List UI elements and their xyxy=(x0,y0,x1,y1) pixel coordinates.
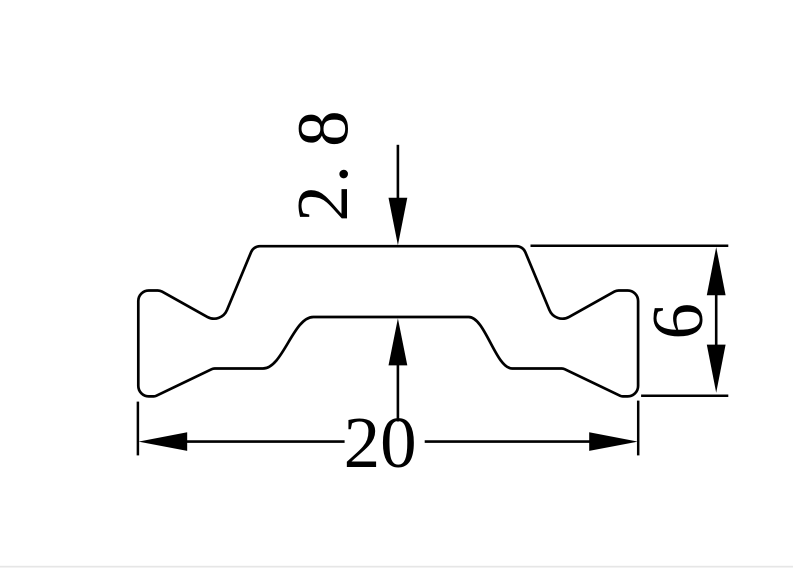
dimension 2.8 upper leader line xyxy=(397,145,400,200)
dimension 20 right extension line xyxy=(637,401,640,456)
dimension 6 upper arrowhead (up) xyxy=(707,247,726,295)
svg-text:20: 20 xyxy=(344,402,417,483)
dimension 20 line left segment xyxy=(186,440,345,443)
dimension 6 line xyxy=(715,293,718,347)
page separator line xyxy=(0,566,793,568)
dimension 20 left arrowhead xyxy=(139,432,188,451)
dimension 20 right arrowhead xyxy=(589,432,638,451)
dimension 2.8 lower arrowhead (up) xyxy=(389,318,408,365)
svg-text:2.8: 2.8 xyxy=(282,108,363,221)
dimension 20 left extension line xyxy=(137,402,140,456)
svg-text:6: 6 xyxy=(637,303,718,340)
dimension 2.8 lower leader line xyxy=(397,364,400,422)
dimension 20 line right segment xyxy=(425,440,591,443)
profile outline xyxy=(138,246,638,396)
dimension 6 bottom extension line xyxy=(641,394,728,397)
dimension 2.8 upper arrowhead (down) xyxy=(389,198,408,246)
dimension 6 lower arrowhead (down) xyxy=(707,345,726,393)
dimension 6 top extension line xyxy=(531,245,729,248)
